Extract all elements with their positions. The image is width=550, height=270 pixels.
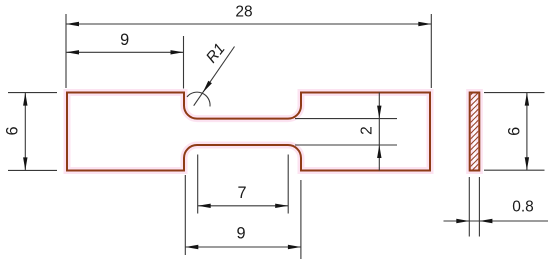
left 6 dim line [24,93,26,171]
svg-text:28: 28 [235,4,252,21]
9 bottom left [185,245,198,249]
0.8 right (left-pointing) [479,219,492,223]
2 dim line [378,93,380,171]
right 6 bottom (down) [525,157,529,170]
left 6 dim: extension lines [8,92,57,94]
svg-text:9: 9 [120,31,129,49]
9 top right [171,50,184,54]
9 top dim line [66,51,184,53]
2 bottom (up) [377,145,381,158]
28 dim: extension lines [65,14,67,88]
svg-text:6: 6 [505,127,523,136]
7 right [275,204,288,208]
R1 arrow [203,81,212,93]
right 6 dim line [526,93,528,171]
specimen outline halo [67,93,430,171]
left 6 top (up) [23,93,27,106]
0.8 dim line [444,220,549,222]
left 6 bottom (down) [23,157,27,170]
28 dim line [66,23,431,25]
28 right [418,22,431,26]
side view hatched section [460,70,490,210]
svg-text:0.8: 0.8 [512,198,534,215]
2 top (down) [377,106,381,119]
specimen dog-bone outline (front view) [67,93,430,171]
7 left [198,204,211,208]
9 bottom dim: extension lines [184,175,186,255]
side view halo [470,93,480,171]
0.8 dim: extension lines [468,177,470,237]
9 top dim: right extension [183,36,185,89]
right 6 top (up) [525,93,529,106]
0.8 left (right-pointing) [456,219,469,223]
svg-text:9: 9 [236,224,245,242]
9 bottom right [288,245,301,249]
7 dim: extension lines [197,155,199,214]
7 dim line [198,205,289,207]
9 top left [66,50,79,54]
28 left [66,22,79,26]
9 bottom dim line [185,246,301,248]
R1 leader [194,47,235,106]
2 dim: extension lines [295,118,397,120]
arrowheads [23,22,529,249]
R1 arc [187,92,210,106]
right 6 dim: extension lines [484,92,545,94]
svg-text:2: 2 [359,126,376,135]
svg-text:7: 7 [237,184,246,202]
svg-text:6: 6 [3,126,21,135]
